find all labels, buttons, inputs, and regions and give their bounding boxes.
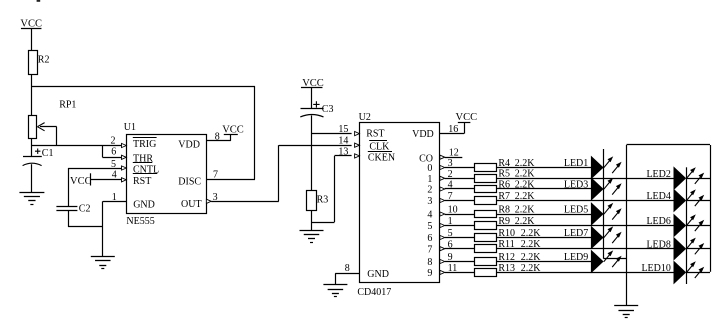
pin 11 label xyxy=(448,263,458,274)
capacitor C3 xyxy=(300,101,333,117)
wire VCC to RST (pin 4) xyxy=(91,179,122,181)
wire output 4 to resistor R8 xyxy=(445,214,475,216)
svg-text:U2: U2 xyxy=(359,112,371,123)
svg-text:R8: R8 xyxy=(498,204,510,215)
wire right cathode bus xyxy=(686,167,688,284)
pin 1 label xyxy=(112,192,117,203)
wire C2 to gnd rail xyxy=(68,210,70,227)
svg-text:LED4: LED4 xyxy=(646,191,670,202)
pin 2 label xyxy=(448,169,453,180)
pin 14 label xyxy=(338,136,348,147)
label LED10 xyxy=(641,263,670,274)
svg-text:C1: C1 xyxy=(42,148,54,159)
svg-text:OUT: OUT xyxy=(181,199,202,210)
label R9 2.2K xyxy=(498,216,535,227)
pin 2 arrow (output 1) xyxy=(440,176,445,180)
svg-text:RST: RST xyxy=(133,176,151,187)
output digit 2 (CD4017) xyxy=(427,185,432,196)
label R6 2.2K xyxy=(498,179,535,190)
svg-text:RST: RST xyxy=(366,129,384,140)
label R11 2.2K xyxy=(498,239,541,250)
wire resistor to LED3 xyxy=(496,188,591,190)
pin 1 label xyxy=(448,216,453,227)
pin 8 label xyxy=(215,132,220,143)
capacitor C2 xyxy=(56,168,90,214)
svg-text:16: 16 xyxy=(448,124,458,135)
svg-text:LED1: LED1 xyxy=(564,158,588,169)
svg-text:CLK: CLK xyxy=(369,141,390,152)
resistor R12 xyxy=(475,258,497,266)
output digit 0 (CD4017) xyxy=(427,163,432,174)
svg-text:4: 4 xyxy=(427,210,432,221)
resistor R5 xyxy=(475,175,497,183)
wire bus corner to ground drop xyxy=(604,258,627,260)
output digit 6 (CD4017) xyxy=(427,233,432,244)
svg-text:14: 14 xyxy=(338,136,348,147)
svg-text:2: 2 xyxy=(111,135,116,146)
label LED3 xyxy=(564,180,588,191)
pin 7 arrow (output 3) xyxy=(440,198,445,202)
resistor R9 xyxy=(475,222,497,230)
svg-text:R3: R3 xyxy=(317,195,329,206)
resistor R3 xyxy=(307,191,329,211)
power VCC (NE555 pin 8) xyxy=(222,124,244,135)
wire CO (pin 12) stub xyxy=(445,157,463,159)
svg-text:CD4017: CD4017 xyxy=(357,287,391,298)
wire resistor to LED9 xyxy=(496,261,591,263)
wire output 3 to resistor R7 xyxy=(445,200,475,202)
svg-text:6: 6 xyxy=(111,146,116,157)
svg-text:LED9: LED9 xyxy=(564,252,588,263)
svg-text:9: 9 xyxy=(427,268,432,279)
LED LED1 xyxy=(591,156,621,178)
pin 6 label xyxy=(448,239,453,250)
resistor R11 xyxy=(475,245,497,253)
pin 5 label xyxy=(111,159,116,170)
LED LED6 xyxy=(674,214,704,236)
output digit 1 (CD4017) xyxy=(427,174,432,185)
resistor R2 xyxy=(29,51,50,75)
pin 9 arrow (output 8) xyxy=(440,259,445,263)
svg-text:5: 5 xyxy=(427,221,432,232)
svg-text:NE555: NE555 xyxy=(126,216,154,227)
potentiometer RP1 xyxy=(29,100,77,139)
svg-text:4: 4 xyxy=(112,169,117,180)
output digit 4 (CD4017) xyxy=(427,210,432,221)
wire VCC to VDD (pin 8) xyxy=(230,134,232,141)
wire GND (pin 1) xyxy=(103,201,127,203)
output digit 5 (CD4017) xyxy=(427,221,432,232)
pin 6 arrow xyxy=(122,155,127,159)
pin 12 arrow (CO) xyxy=(440,155,445,159)
output digit 3 (CD4017) xyxy=(427,196,432,207)
LED LED5 xyxy=(591,203,621,225)
label LED2 xyxy=(646,169,670,180)
wire output 6 to resistor R10 xyxy=(445,237,475,239)
wire resistor to LED6 xyxy=(496,225,674,227)
svg-text:8: 8 xyxy=(427,257,432,268)
svg-text:VDD: VDD xyxy=(412,129,434,140)
wire branch to THR (pin 6) xyxy=(102,146,104,158)
svg-text:LED3: LED3 xyxy=(564,180,588,191)
wire RST (pin 15) xyxy=(312,133,352,135)
svg-text:6: 6 xyxy=(427,233,432,244)
svg-text:15: 15 xyxy=(338,124,348,135)
wire VDD (pin 16) xyxy=(464,122,466,133)
wire output 2 to resistor R6 xyxy=(445,188,475,190)
LED LED4 xyxy=(674,189,704,211)
svg-text:C3: C3 xyxy=(322,104,334,115)
label R4 2.2K xyxy=(498,158,535,169)
svg-text:LED5: LED5 xyxy=(564,205,588,216)
label R10 2.2K xyxy=(498,228,541,239)
pin 9 label xyxy=(448,252,453,263)
LED LED3 xyxy=(591,178,621,200)
wire DISC vertical xyxy=(254,86,256,179)
pin 5 arrow (output 6) xyxy=(440,235,445,239)
pin 3 label xyxy=(448,158,453,169)
pin 7 label xyxy=(213,170,218,181)
svg-text:RP1: RP1 xyxy=(59,100,76,111)
wire VCC to R2 xyxy=(31,28,33,50)
resistor R6 xyxy=(475,186,497,193)
pin 7 label xyxy=(448,191,453,202)
wire RP1 wiper xyxy=(40,126,57,128)
ground (below NE555) xyxy=(91,257,115,269)
pin 10 arrow (output 4) xyxy=(440,212,445,216)
pin 15 label xyxy=(338,124,348,135)
wire resistor to LED5 xyxy=(496,214,591,216)
pin 11 arrow (output 9) xyxy=(440,270,445,274)
wire node R2/RP1 to DISC (horizontal) xyxy=(32,86,255,88)
svg-text:LED7: LED7 xyxy=(564,228,588,239)
pin 6 arrow (output 7) xyxy=(440,247,445,251)
wire output 9 to resistor R13 xyxy=(445,272,475,274)
svg-text:LED10: LED10 xyxy=(641,263,670,274)
label R12 2.2K xyxy=(498,252,541,263)
wire LED4 cathode stub xyxy=(686,200,710,202)
svg-text:12: 12 xyxy=(449,148,459,159)
wire VCC to C3 xyxy=(311,88,313,109)
svg-text:R2: R2 xyxy=(38,55,50,66)
ground (below R3) xyxy=(300,231,324,243)
wire left cathode bus xyxy=(603,149,605,259)
wire OUT (pin 3) to CLK xyxy=(211,201,279,203)
wire LED6 cathode stub xyxy=(686,225,710,227)
label LED5 xyxy=(564,205,588,216)
wire R2 to RP1 xyxy=(31,75,33,116)
LED LED2 xyxy=(674,167,704,189)
svg-text:1: 1 xyxy=(427,174,432,185)
wire DISC (pin 7) xyxy=(206,179,255,181)
pin 1 arrow (output 5) xyxy=(440,223,445,227)
pin 16 label xyxy=(448,124,458,135)
resistor R8 xyxy=(475,211,497,218)
pin 12 label xyxy=(449,148,459,159)
wire resistor to LED2 xyxy=(496,178,674,180)
ground (LED return, bottom right) xyxy=(614,306,638,318)
wire output 5 to resistor R9 xyxy=(445,225,475,227)
pin 5 label xyxy=(448,228,453,239)
label R13 2.2K xyxy=(498,263,541,274)
label R8 2.2K xyxy=(498,204,535,215)
pin 10 label xyxy=(448,205,458,216)
wire R3 to ground xyxy=(311,211,313,230)
pin 13 label xyxy=(338,147,348,158)
resistor R4 xyxy=(475,164,497,172)
label R5 2.2K xyxy=(498,169,535,180)
LED LED7 xyxy=(591,226,621,248)
wire resistor to LED4 xyxy=(496,200,674,202)
pin 13 arrow xyxy=(355,154,360,158)
resistor R10 xyxy=(475,234,497,242)
wire CKEN (pin 13) xyxy=(335,155,352,157)
pin 4 arrow (output 2) xyxy=(440,187,445,191)
wire resistor to LED1 xyxy=(496,167,591,169)
svg-text:8: 8 xyxy=(345,263,350,274)
wire frame right edge xyxy=(710,145,712,272)
wire resistor to LED10 xyxy=(496,272,674,274)
label R7 2.2K xyxy=(498,191,535,202)
svg-text:GND: GND xyxy=(367,269,389,280)
svg-text:LED6: LED6 xyxy=(646,216,670,227)
counter U2 CD4017 xyxy=(357,112,439,298)
op-amp U1 NE555 timer xyxy=(124,122,207,227)
pin 2 arrow xyxy=(122,143,127,147)
svg-text:GND: GND xyxy=(133,200,155,211)
wire resistor to LED7 xyxy=(496,237,591,239)
stray mark xyxy=(37,0,41,2)
pin 2 label xyxy=(111,135,116,146)
wire output 7 to resistor R11 xyxy=(445,248,475,250)
wire node to TRIG (pin 2) xyxy=(32,145,122,147)
pin 4 label xyxy=(112,169,117,180)
pin 5 arrow xyxy=(122,166,127,170)
svg-text:VDD: VDD xyxy=(178,140,200,151)
resistor R13 xyxy=(475,269,497,277)
wire LED10 cathode stub xyxy=(686,272,710,274)
capacitor C1 xyxy=(23,146,54,166)
output digit 9 (CD4017) xyxy=(427,268,432,279)
wire RP1 bottom to node xyxy=(31,139,33,146)
wire to ground stem xyxy=(102,227,104,257)
power VCC (CD4017 pin 16) xyxy=(456,112,478,123)
wire right frame left edge / ground drop xyxy=(626,145,628,306)
svg-text:VCC: VCC xyxy=(70,176,92,187)
svg-text:VCC: VCC xyxy=(222,124,244,135)
power VCC (to RST pin 4) xyxy=(70,173,92,187)
LED LED9 xyxy=(591,250,621,272)
power VCC (above C3) xyxy=(301,78,324,89)
label LED4 xyxy=(646,191,670,202)
pin 3 arrow (output 0) xyxy=(440,165,445,169)
wire frame top edge xyxy=(627,144,711,146)
label LED1 xyxy=(564,158,588,169)
ground (below CD4017) xyxy=(323,285,347,297)
svg-text:LED8: LED8 xyxy=(646,239,670,250)
label LED8 xyxy=(646,239,670,250)
LED LED10 xyxy=(674,261,704,283)
svg-text:C2: C2 xyxy=(79,203,91,214)
LED LED8 xyxy=(674,238,704,260)
svg-text:2: 2 xyxy=(427,185,432,196)
svg-text:VCC: VCC xyxy=(456,112,478,123)
wire output 1 to resistor R5 xyxy=(445,178,475,180)
pin 3 label xyxy=(213,192,218,203)
pin 15 arrow xyxy=(355,132,360,136)
label LED7 xyxy=(564,228,588,239)
pin 6 label xyxy=(111,146,116,157)
pin 8 label xyxy=(345,263,350,274)
wire C1 to ground xyxy=(31,164,33,192)
output digit 8 (CD4017) xyxy=(427,257,432,268)
wire output 8 to resistor R12 xyxy=(445,261,475,263)
svg-text:13: 13 xyxy=(338,147,348,158)
power VCC (top left) xyxy=(20,19,42,30)
svg-text:CKEN: CKEN xyxy=(368,153,395,164)
svg-text:TRIG: TRIG xyxy=(133,139,156,150)
ground (below C1) xyxy=(19,193,44,205)
wire CNTL (pin 5) xyxy=(68,168,122,170)
label LED9 xyxy=(564,252,588,263)
wire LED2 cathode stub xyxy=(686,178,710,180)
pin 4 arrow xyxy=(122,178,127,182)
svg-text:2.2K: 2.2K xyxy=(515,204,536,215)
svg-text:LED2: LED2 xyxy=(646,169,670,180)
wire GND (pin 8) xyxy=(335,273,359,275)
label LED6 xyxy=(646,216,670,227)
resistor R7 xyxy=(475,197,497,205)
pin 14 arrow xyxy=(355,143,360,147)
pin 3 arrow (OUT) xyxy=(206,199,211,203)
wire output 0 to resistor R4 xyxy=(445,167,475,169)
svg-text:U1: U1 xyxy=(124,122,136,133)
wire C3 to RST junction to R3 xyxy=(311,115,313,190)
output digit 7 (CD4017) xyxy=(427,244,432,255)
wire resistor to LED8 xyxy=(496,248,674,250)
svg-text:0: 0 xyxy=(427,163,432,174)
svg-text:DISC: DISC xyxy=(178,176,201,187)
wire LED8 cathode stub xyxy=(686,248,710,250)
svg-text:7: 7 xyxy=(427,244,432,255)
svg-text:3: 3 xyxy=(427,196,432,207)
pin 4 label xyxy=(448,180,453,191)
